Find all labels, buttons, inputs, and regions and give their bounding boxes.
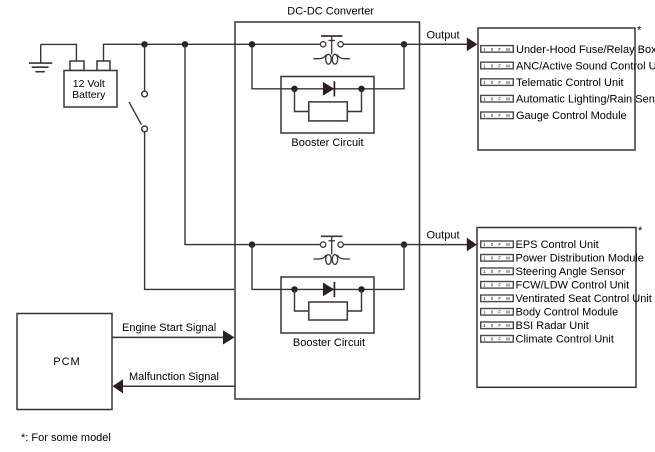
node row2 bus/booster2 junction [249, 241, 255, 247]
wire booster1 through wire [295, 88, 362, 90]
svg-text:ANC/Active Sound Control Unit: ANC/Active Sound Control Unit [516, 60, 655, 72]
ECU item: ANC/Active Sound Control Unit [481, 60, 655, 72]
svg-text:Telematic Control Unit: Telematic Control Unit [516, 77, 624, 89]
wire relay K2 output to row2 bus right [343, 244, 419, 246]
ECU item: BSI Radar Unit [481, 320, 589, 332]
svg-text:*: For some model: *: For some model [21, 432, 111, 444]
svg-text:Under-Hood Fuse/Relay Box: Under-Hood Fuse/Relay Box [516, 44, 655, 56]
svg-text:BSI Radar Unit: BSI Radar Unit [516, 320, 589, 332]
wire bus to switch top contact [144, 44, 146, 91]
svg-text:Power Distribution Module: Power Distribution Module [516, 253, 644, 265]
booster circuit 1 box [281, 77, 374, 134]
svg-text:FCW/LDW Control Unit: FCW/LDW Control Unit [516, 280, 630, 292]
svg-text:*: * [637, 25, 642, 37]
ECU item: Ventirated Seat Control Unit [481, 293, 652, 305]
svg-text:Battery: Battery [72, 89, 106, 101]
arrow output 1 [467, 37, 478, 51]
top-right loads box [478, 28, 635, 150]
relay K2 coil [314, 255, 350, 265]
relay K2 contacts [320, 236, 343, 254]
svg-text:EPS Control Unit: EPS Control Unit [516, 239, 599, 251]
wire output 2 [420, 244, 468, 246]
wire output 1 [420, 43, 468, 45]
wire bus to row2 relay bus [185, 44, 321, 244]
node bus/booster1 output junction [401, 41, 407, 47]
wire booster2 parallel branch right [347, 289, 361, 311]
svg-text:Ventirated Seat Control Unit: Ventirated Seat Control Unit [516, 293, 652, 305]
svg-text:Body Control Module: Body Control Module [516, 307, 619, 319]
resistor R2 (booster element) [309, 302, 348, 320]
svg-text:Output: Output [426, 30, 459, 42]
wire booster2 parallel branch left [295, 289, 309, 311]
svg-text:DC-DC Converter: DC-DC Converter [287, 6, 374, 18]
svg-text:Engine Start Signal: Engine Start Signal [122, 322, 216, 334]
ECU item: Telematic Control Unit [481, 77, 624, 89]
arrow Malfunction Signal [113, 379, 124, 393]
svg-text:*: * [638, 225, 643, 237]
svg-text:Climate Control Unit: Climate Control Unit [516, 334, 614, 346]
node row2 bus/booster2 output junction [401, 241, 407, 247]
svg-text:PCM: PCM [53, 356, 80, 368]
wire booster2 output up to row2 bus [362, 245, 405, 290]
wire row2 junction down into booster 2 [252, 245, 295, 290]
diode D1 [323, 81, 335, 96]
ECU item: Power Distribution Module [481, 253, 644, 265]
wire relay K1 output to bus right [343, 43, 419, 45]
arrow Engine Start Signal [223, 330, 235, 344]
resistor R1 (booster element) [309, 102, 348, 121]
node booster2 right junction [358, 286, 364, 292]
svg-text:Steering Angle Sensor: Steering Angle Sensor [516, 266, 626, 278]
relay K1 contacts [320, 36, 343, 54]
wire bus junction down into booster 1 [252, 44, 295, 89]
diode D2 [323, 282, 335, 297]
PCM box [17, 314, 112, 410]
svg-text:Malfunction Signal: Malfunction Signal [129, 371, 219, 383]
ECU item: Climate Control Unit [481, 334, 614, 346]
ECU item: Under-Hood Fuse/Relay Box [481, 44, 655, 56]
node booster1 right junction [358, 86, 364, 92]
wire booster2 through wire [295, 288, 362, 290]
wire booster1 parallel branch left [295, 89, 309, 112]
relay K1 coil [314, 54, 350, 64]
svg-text:Gauge Control Module: Gauge Control Module [516, 110, 627, 122]
switch (ignition switch, open) [129, 91, 148, 132]
wire battery positive terminal to main bus [104, 44, 321, 61]
svg-text:Booster Circuit: Booster Circuit [291, 137, 363, 149]
arrow output 2 [467, 238, 477, 252]
wire switch bottom contact to DC-DC converter left edge [145, 132, 235, 290]
ECU item: FCW/LDW Control Unit [481, 280, 629, 292]
node booster1 left junction [291, 86, 297, 92]
node bus/booster1 junction [249, 41, 255, 47]
wire booster1 output up to bus [362, 44, 405, 89]
node bus/switch junction [141, 41, 147, 47]
ECU item: Steering Angle Sensor [481, 266, 626, 278]
wire booster1 parallel branch right [347, 89, 361, 112]
ECU item: Body Control Module [481, 307, 619, 319]
ECU item: Automatic Lighting/Rain Sensor [481, 94, 655, 106]
bottom-right loads box [477, 228, 636, 388]
svg-text:Automatic Lighting/Rain Sensor: Automatic Lighting/Rain Sensor [516, 94, 655, 106]
svg-text:Booster Circuit: Booster Circuit [293, 337, 365, 349]
battery 12 Volt Battery [64, 61, 117, 107]
wire Malfunction Signal [123, 385, 235, 387]
node booster2 left junction [291, 286, 297, 292]
wire battery negative terminal to ground [41, 44, 77, 61]
wire Engine Start Signal [112, 336, 224, 338]
ECU item: EPS Control Unit [481, 239, 599, 251]
svg-text:Output: Output [426, 230, 459, 242]
ECU item: Gauge Control Module [481, 110, 627, 122]
booster circuit 2 box [281, 277, 374, 333]
ground [29, 44, 52, 71]
DC-DC Converter box [235, 22, 420, 399]
node bus/row2-feed junction [182, 41, 188, 47]
